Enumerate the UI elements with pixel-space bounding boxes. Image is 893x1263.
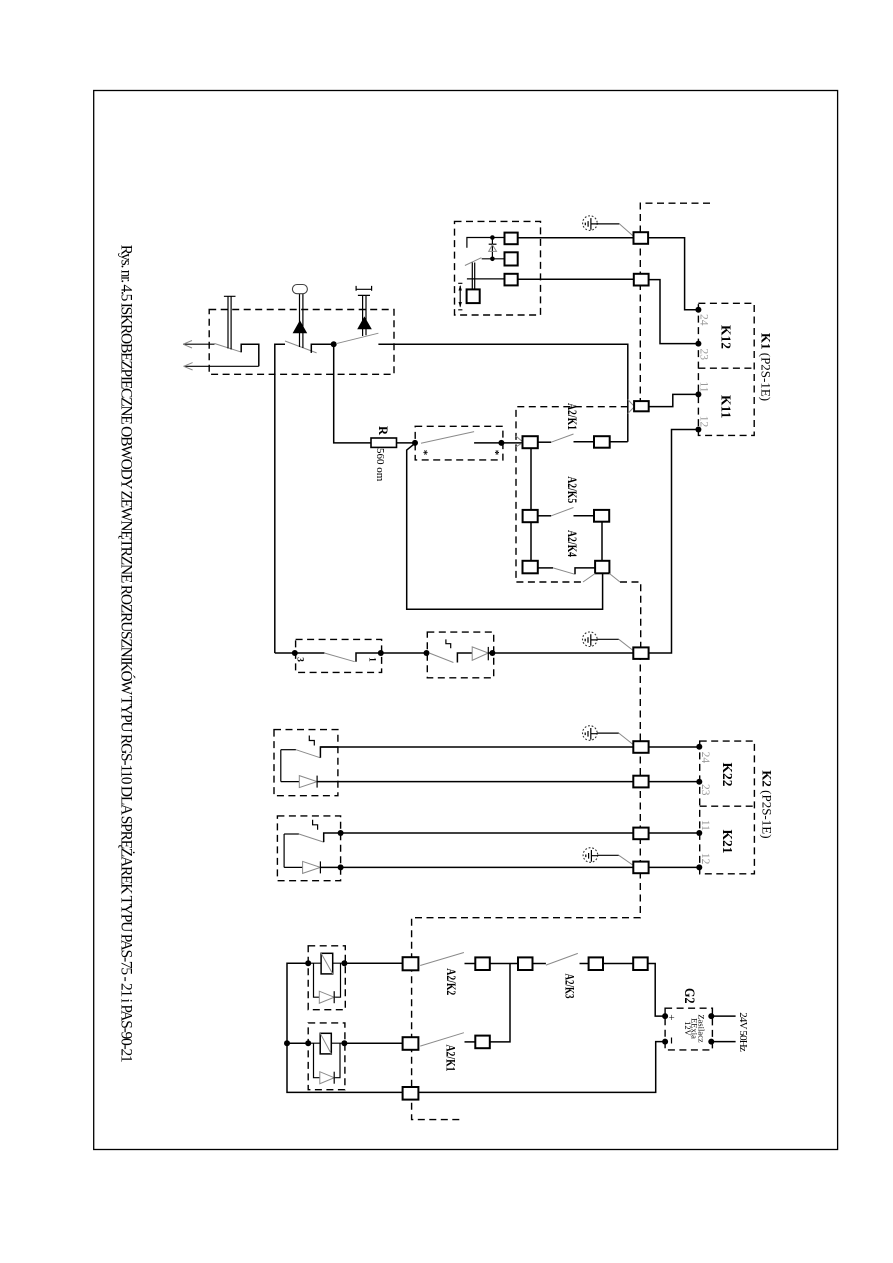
contact A2/K4 arm — [553, 568, 575, 574]
wire T3 to relay terminal 11 — [649, 394, 699, 406]
G2 minus dot — [662, 1039, 668, 1045]
contact A2/K4 left square — [523, 561, 538, 574]
diode-contact unit dashed box — [427, 632, 493, 678]
svg-text:1: 1 — [367, 657, 377, 662]
terminal T5 — [633, 741, 648, 753]
sensor wire P3 lead — [467, 278, 505, 280]
K2 sensor A contact hook — [309, 736, 314, 746]
relay K1 divider K12/K11 — [698, 367, 754, 369]
svg-text:Rys. nr. 4.5 ISKROBEZPIECZNE: Rys. nr. 4.5 ISKROBEZPIECZNE OBWODY ZEWN… — [118, 245, 135, 1063]
wire sensor B diode to T8 — [320, 866, 633, 868]
K2 sensor A diode — [299, 776, 317, 788]
enclosure boundary: notch right of A2/K4 to T4 — [620, 582, 641, 653]
wire A2/K3 to G2 plus — [648, 964, 665, 1017]
wire E3 to T5 — [597, 732, 619, 734]
sensor motion arrow — [458, 283, 462, 310]
K2 sensor unit B dashed box — [277, 816, 340, 881]
svg-text:3: 3 — [295, 657, 305, 662]
svg-text:11: 11 — [699, 820, 711, 831]
diode box contact fixed — [457, 653, 472, 663]
svg-text:R: R — [376, 426, 390, 436]
connector square A2/K2 right — [518, 957, 533, 970]
contact A2/K1 left square — [523, 436, 538, 448]
terminal T1 — [634, 232, 649, 244]
arrow out 1 — [183, 343, 214, 345]
relay coil 1 freewheel diode branch — [314, 963, 341, 1003]
svg-text:A2/K1: A2/K1 — [443, 1045, 458, 1072]
wire T7 to terminal 11 (K2) — [649, 832, 700, 834]
LED triangle on rod 2 — [293, 320, 308, 333]
contact A2/K5 left lead — [538, 515, 552, 517]
svg-text:A2/K2: A2/K2 — [444, 968, 459, 995]
svg-text:K1 (P2S-1E): K1 (P2S-1E) — [759, 333, 774, 401]
wire A2/K1 to T3 — [610, 441, 628, 443]
terminal T6 — [633, 776, 648, 788]
diode D1 — [472, 647, 488, 660]
earth symbol E1 — [583, 216, 599, 231]
earth symbol E3 — [583, 726, 598, 741]
zener diode bar — [489, 243, 497, 245]
contact A2/K1 fixed lead — [574, 441, 595, 443]
terminal dot 24 (K1) — [695, 307, 701, 313]
switch S1 actuator rod — [224, 296, 236, 349]
contact A2/K1b arm — [420, 1033, 464, 1046]
svg-text:+: + — [665, 1014, 677, 1020]
svg-text:G2: G2 — [681, 988, 697, 1004]
earth symbol E4 — [583, 848, 598, 863]
zener diode lead — [491, 238, 493, 259]
svg-text:A2/K1: A2/K1 — [565, 403, 580, 430]
switch S2 actuator rod — [300, 294, 303, 348]
terminal TS_b — [403, 1037, 419, 1050]
wire node A to terminal 11 net — [378, 344, 627, 442]
svg-text:24V 50Hz: 24V 50Hz — [737, 1012, 749, 1052]
switch S2 left lead corner — [275, 344, 285, 653]
connector square A2/K3 right — [633, 957, 648, 970]
sensor wire P1 left lead with stub — [467, 238, 505, 248]
terminal dot 23 (K1) — [695, 341, 701, 347]
switch 3-1 arm — [324, 653, 354, 662]
wire E4 to T8 — [598, 854, 619, 856]
terminal T2 — [634, 274, 649, 286]
diode box contact hook — [446, 639, 451, 648]
K2 sensor unit A dashed box — [274, 730, 338, 796]
K2 sensor B contact arm — [299, 834, 324, 842]
svg-text:560 om: 560 om — [374, 448, 386, 482]
wire bus to relay coil 2 — [287, 1042, 308, 1044]
relay coil 2 freewheel diode branch — [314, 1043, 341, 1084]
svg-text:12: 12 — [698, 416, 710, 428]
switch S2 arm — [285, 341, 317, 353]
switch 3-1 left wire — [275, 652, 296, 654]
wire node B down to A2/K4 net — [407, 443, 603, 609]
contact A2/K3 fixed lead — [580, 963, 589, 965]
K2 sensor B bus — [283, 834, 285, 867]
K2 sensor B diode — [303, 861, 321, 873]
terminal dot 23 (K2) — [696, 779, 702, 785]
svg-text:23: 23 — [699, 784, 711, 796]
relay K2 dashed box — [700, 741, 755, 874]
contact A2/K1 left lead — [538, 441, 551, 443]
contact A2/K3 arm — [546, 953, 578, 965]
relay coil 2 right dot — [341, 1040, 347, 1046]
svg-text:A2/K4: A2/K4 — [565, 530, 580, 557]
terminal T4 — [633, 647, 648, 659]
relay K1 dashed box — [698, 303, 754, 435]
wire T2 to relay terminal 23 — [649, 280, 699, 344]
contact A2/K5 arm — [551, 508, 573, 516]
wire E1 to T1 — [597, 223, 619, 225]
sensor switch arm — [465, 258, 482, 266]
wire node C to contact A2/K1 — [501, 442, 522, 444]
enclosure boundary: T4 down through T5-T8 to bottom left turn — [412, 653, 641, 1120]
svg-text:K22: K22 — [720, 762, 735, 786]
switch 3-1 left dot — [292, 650, 298, 656]
connector square A2/K2 left — [475, 957, 490, 970]
terminal TS_a — [403, 957, 419, 970]
K2 sensor B contact fixed — [324, 833, 341, 842]
relay coil box 1 dashed — [308, 946, 345, 1010]
contact A2/K4 right square — [595, 561, 609, 574]
star switch dashed box — [415, 426, 503, 460]
K2 sensor B out dots — [338, 830, 344, 836]
K2 sensor A diode lead — [281, 781, 300, 783]
svg-text:A2/K5: A2/K5 — [565, 476, 580, 503]
wire A2/K1b up to row 1 — [490, 964, 510, 1042]
terminal TS_c — [403, 1087, 419, 1100]
G2 right minus dot — [708, 1039, 714, 1045]
svg-text:12V: 12V — [683, 1021, 693, 1037]
contact A2/K5 fixed lead — [574, 515, 595, 517]
K2 sensor A contact in lead — [281, 749, 296, 751]
terminal dot 12 (K1) — [695, 427, 701, 433]
node B junction dot — [412, 440, 418, 446]
switch S3 arm — [336, 333, 378, 344]
switch S3 actuator rod — [356, 286, 372, 336]
wire between A2/K3 squares — [603, 963, 633, 965]
wire T1 to relay terminal 24 — [648, 238, 698, 310]
K2 sensor A bus — [280, 750, 282, 782]
contact bus left vertical — [530, 448, 532, 561]
diode box right dot — [489, 650, 495, 656]
node C junction dot — [498, 440, 504, 446]
arrow out 2 — [184, 365, 259, 367]
bottom left bus — [287, 963, 665, 1092]
intrinsically-safe enclosure dashed boundary (upper part) — [640, 203, 710, 406]
G2 minus sign — [671, 1038, 673, 1044]
wire E2 to T4 — [597, 638, 619, 640]
wire coil 1 to TS_a — [344, 962, 402, 964]
sensor body square — [467, 289, 480, 303]
relay coil 2 — [308, 1033, 344, 1054]
svg-text:23: 23 — [698, 348, 710, 360]
switch 3-1 right dot — [378, 650, 384, 656]
switch S2 fixed contact — [311, 344, 333, 353]
terminal dot 11 (K2) — [696, 830, 702, 836]
K2 sensor A contact arm — [296, 750, 321, 758]
connector square A2/K1b — [475, 1036, 490, 1049]
relay coil box 2 dashed — [308, 1023, 345, 1090]
wire T5 to terminal 24 (K2) — [649, 746, 700, 748]
contact A2/K5 left square — [523, 510, 538, 522]
diode box contact arm — [429, 653, 453, 663]
G2 mains stub plus — [711, 1015, 735, 1017]
wire node A down to resistor R — [334, 344, 371, 443]
sensor unit terminal square P1 — [505, 233, 518, 245]
bus row2 dot — [284, 1040, 290, 1046]
contact A2/K1 arm — [551, 434, 573, 442]
svg-text:K11: K11 — [719, 395, 734, 419]
svg-text:K12: K12 — [719, 325, 734, 349]
contact A2/K4 left lead — [538, 567, 553, 569]
svg-text:*: * — [418, 450, 430, 456]
K2 sensor B diode lead — [284, 866, 303, 868]
terminal dot 24 (K2) — [696, 744, 702, 750]
wire sensor A diode to T6 — [317, 781, 633, 783]
frame border — [94, 91, 838, 1150]
wire P1 to terminal T1 — [518, 237, 634, 239]
terminal dot 12 (K2) — [696, 864, 702, 870]
svg-text:A2/K3: A2/K3 — [562, 974, 577, 999]
K2 sensor B contact in lead — [284, 833, 299, 835]
earth symbol E2 — [583, 632, 598, 647]
zener node dots — [490, 235, 495, 240]
wire 3-1 box to diode box — [381, 652, 428, 654]
cable entry arrow at T3 — [628, 400, 634, 414]
diode box left dot — [424, 650, 430, 656]
K2 sensor B contact hook — [313, 820, 318, 830]
star switch fixed lead — [474, 442, 501, 444]
wire coil 2 to TS_b — [344, 1042, 402, 1044]
svg-text:*: * — [489, 450, 501, 456]
enclosure boundary: relay box top edge — [516, 407, 628, 582]
K2 sensor A contact fixed — [320, 747, 338, 758]
relay coil 1 — [308, 953, 344, 974]
switch S1 arm — [215, 344, 242, 353]
diode box out wire — [488, 652, 633, 654]
svg-text:11: 11 — [698, 381, 710, 392]
terminal dot 11 (K1) — [695, 391, 701, 397]
sensor wire P2 lead — [482, 258, 505, 260]
wire A2/K5 to A2/K4 right vertical — [601, 522, 603, 561]
star switch arm — [421, 432, 474, 444]
contact A2/K2 fixed lead — [465, 963, 476, 965]
wire terminal 12 to T4 — [649, 430, 699, 654]
connector square A2/K3 left — [589, 957, 603, 970]
contact A2/K5 right square — [594, 510, 609, 522]
switch 3-1 fixed contact — [356, 653, 381, 662]
switch 3-1 dashed box — [296, 639, 382, 672]
G2 mains stub minus — [711, 1041, 735, 1043]
svg-text:K21: K21 — [720, 829, 735, 853]
cable entry diagonals at A2/K4 — [583, 574, 620, 583]
svg-text:24: 24 — [698, 314, 710, 326]
svg-text:24: 24 — [699, 752, 711, 764]
wire sensor B to T7 — [341, 832, 634, 834]
cable entry arrow at A2/K1 — [516, 436, 523, 447]
relay K2 divider K22/K21 — [700, 805, 755, 807]
node A junction dot — [331, 341, 337, 347]
terminal T7 — [633, 828, 648, 840]
svg-text:12: 12 — [699, 853, 711, 865]
switch S1 fixed contact — [241, 344, 259, 366]
wire T6 to terminal 23 (K2) — [649, 781, 700, 783]
relay coil 2 left dot — [305, 1040, 311, 1046]
contact A2/K3 lead — [533, 963, 546, 965]
lamp symbol — [292, 285, 307, 294]
lamp/pushbutton unit dashed box — [209, 310, 394, 375]
switch 3-1 in lead — [295, 652, 325, 654]
relay coil 1 right dot — [341, 960, 347, 966]
wire P3 to terminal T2 — [518, 278, 634, 280]
zener diode triangle — [489, 245, 497, 252]
contact A2/K1b fixed lead — [465, 1041, 476, 1043]
contact A2/K4 fixed lead — [575, 568, 595, 574]
terminal T3 — [634, 401, 649, 411]
terminal T8 — [633, 862, 648, 874]
wire sensor A to T5 — [320, 746, 633, 748]
sensor unit terminal square P3 — [505, 274, 518, 286]
relay coil 1 left dot — [305, 960, 311, 966]
contact A2/K2 arm — [420, 953, 464, 966]
top sensor unit dashed box — [455, 221, 541, 315]
resistor R — [371, 438, 397, 447]
wire R to node B — [397, 442, 416, 444]
wire T8 to terminal 12 (K2) — [649, 866, 700, 868]
G2 right plus dot — [708, 1013, 714, 1019]
LED triangle on rod 3 — [357, 316, 372, 329]
G2 plus dot — [662, 1013, 668, 1019]
sensor actuator rod — [472, 263, 474, 290]
power supply G2 dashed box — [665, 1008, 712, 1050]
svg-text:K2 (P2S-1E): K2 (P2S-1E) — [760, 770, 775, 838]
contact A2/K1 right square — [594, 436, 610, 448]
wire between A2/K2 squares — [490, 963, 518, 965]
sensor unit terminal square P2 — [505, 252, 518, 265]
